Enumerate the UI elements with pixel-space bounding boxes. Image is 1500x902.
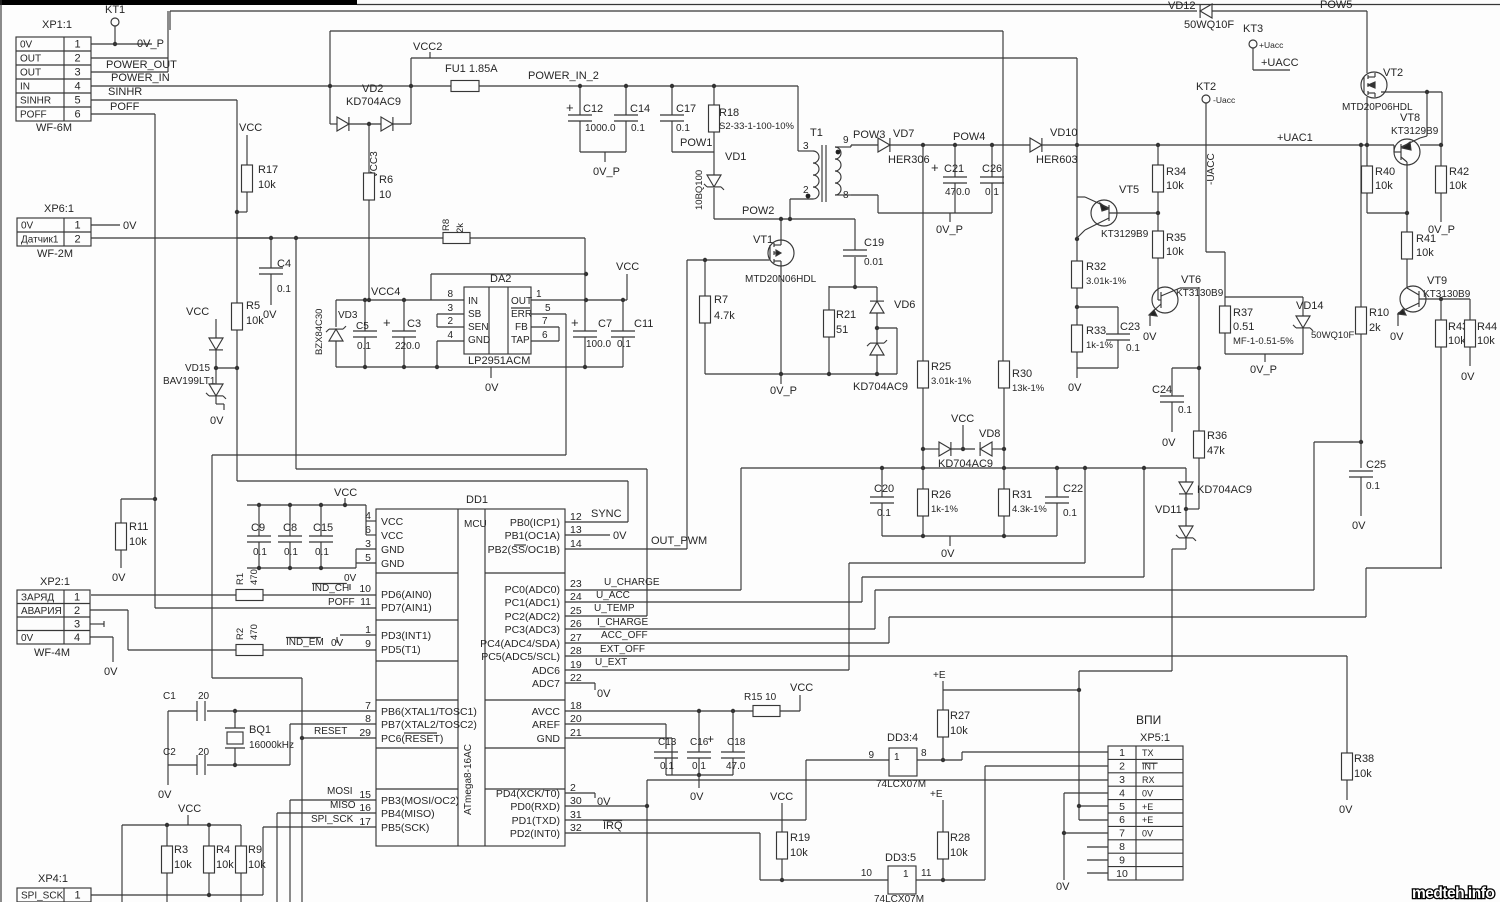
svg-text:GND: GND [537, 733, 561, 745]
diode pair VD8 KD704AC9 [921, 413, 1006, 470]
svg-text:3.01k-1%: 3.01k-1% [1086, 276, 1127, 287]
capacitor C12 [566, 84, 616, 152]
svg-text:ACC_OFF: ACC_OFF [601, 630, 648, 641]
transistor VT9 KT3130B9 [1390, 275, 1471, 343]
svg-text:0.1: 0.1 [253, 547, 267, 558]
svg-text:0V: 0V [21, 633, 34, 644]
svg-text:KT3129B9: KT3129B9 [1391, 126, 1439, 137]
svg-text:0V: 0V [104, 666, 118, 678]
svg-text:VT6: VT6 [1181, 274, 1201, 286]
wire 0V_P rail primary [705, 372, 897, 397]
svg-text:5: 5 [365, 552, 371, 564]
wire POWER_IN upper bus [328, 31, 1003, 361]
svg-text:PD1(TXD): PD1(TXD) [512, 815, 560, 827]
wire DA2 left pins [435, 314, 464, 369]
svg-text:8: 8 [447, 289, 453, 300]
svg-text:50WQ10F: 50WQ10F [1184, 19, 1234, 31]
wire VCC pins MCU [366, 505, 376, 535]
svg-text:PB3(MOSI/OC2): PB3(MOSI/OC2) [381, 795, 459, 807]
svg-text:R17: R17 [258, 164, 278, 176]
svg-text:VD11: VD11 [1155, 504, 1182, 516]
svg-text:0.1: 0.1 [315, 547, 329, 558]
svg-text:VCC2: VCC2 [413, 41, 442, 53]
svg-text:C22: C22 [1063, 483, 1083, 495]
diode VD7 HER306 [851, 128, 1030, 166]
svg-text:WF-6M: WF-6M [36, 122, 72, 134]
svg-text:4.3k-1%: 4.3k-1% [1012, 504, 1047, 515]
svg-text:8: 8 [365, 713, 371, 725]
svg-text:50WQ10F: 50WQ10F [1311, 330, 1354, 341]
svg-text:R1: R1 [235, 573, 246, 585]
svg-text:10: 10 [379, 189, 391, 201]
svg-text:47.0: 47.0 [726, 761, 746, 772]
svg-text:R5: R5 [246, 300, 260, 312]
svg-text:7: 7 [542, 316, 548, 327]
wire POW2 [714, 217, 855, 221]
wire XP2 pin4 [90, 637, 118, 678]
svg-text:R32: R32 [1086, 261, 1106, 273]
svg-text:medteh.info: medteh.info [1412, 885, 1494, 902]
svg-text:16000kHz: 16000kHz [249, 740, 294, 751]
svg-text:15: 15 [359, 789, 371, 801]
svg-text:10k: 10k [1448, 335, 1466, 347]
svg-text:16: 16 [359, 802, 371, 814]
capacitor C26 [980, 143, 1004, 213]
svg-text:DD3:5: DD3:5 [885, 852, 916, 864]
svg-text:3: 3 [365, 538, 371, 550]
wire battery sense rail [741, 466, 1186, 470]
wire RXD [565, 780, 1108, 902]
svg-text:2: 2 [447, 316, 453, 327]
svg-text:VCC: VCC [178, 803, 201, 815]
wire PD4 0V [565, 793, 611, 808]
wire 0V rail under dividers [882, 534, 1057, 560]
wire 0V_P under R37 [1225, 354, 1303, 376]
resistor R27 [933, 670, 970, 760]
svg-text:0V_P: 0V_P [1250, 364, 1277, 376]
wire XP5 +E pins [1077, 688, 1108, 820]
net label POW3 [853, 129, 885, 141]
svg-text:VD14: VD14 [1296, 300, 1324, 312]
svg-text:POW1: POW1 [680, 137, 712, 149]
svg-text:+: + [566, 100, 574, 115]
svg-text:C9: C9 [251, 522, 265, 534]
svg-text:R34: R34 [1166, 166, 1186, 178]
power VCC above C11 [616, 261, 639, 300]
svg-text:0.51: 0.51 [1233, 321, 1254, 333]
resistor R42 [1428, 145, 1469, 236]
svg-text:C17: C17 [676, 103, 696, 115]
svg-text:C14: C14 [630, 103, 650, 115]
svg-text:1: 1 [74, 890, 80, 902]
svg-text:0.1: 0.1 [1063, 508, 1077, 519]
mosfet VT1 MTD20N06HDL [745, 219, 817, 374]
wire XP2 pin3 stub [90, 621, 104, 627]
svg-text:0V: 0V [597, 688, 611, 700]
resistor R1 [91, 569, 376, 600]
svg-text:10k: 10k [246, 315, 264, 327]
svg-text:WF-4M: WF-4M [34, 647, 70, 659]
svg-text:0.01: 0.01 [864, 257, 884, 268]
svg-text:LP2951ACM: LP2951ACM [468, 355, 530, 367]
wire VT6 collector branch [1197, 287, 1201, 431]
capacitor C5 [353, 300, 377, 367]
capacitor C2 [163, 724, 376, 775]
wire XP5 spare stubs [1087, 847, 1108, 873]
svg-text:R9: R9 [248, 844, 262, 856]
svg-text:TAP: TAP [511, 335, 530, 346]
svg-text:0.1: 0.1 [1366, 481, 1380, 492]
svg-text:10: 10 [1116, 868, 1128, 880]
wire OUT_PWM [565, 260, 707, 549]
svg-text:AREF: AREF [532, 719, 560, 731]
svg-text:POFF: POFF [110, 101, 140, 113]
svg-text:VCC: VCC [616, 261, 639, 273]
svg-text:-Uacc: -Uacc [1213, 95, 1236, 105]
svg-text:+: + [931, 160, 939, 175]
svg-text:C20: C20 [874, 483, 894, 495]
svg-text:0.1: 0.1 [660, 761, 674, 772]
svg-text:+E: +E [1142, 815, 1153, 825]
watermark medteh.info [1412, 885, 1494, 902]
svg-text:R42: R42 [1449, 166, 1469, 178]
svg-text:0V: 0V [1142, 788, 1153, 798]
test point KT1 [105, 4, 125, 46]
diode VD1 10BQ100 [694, 151, 746, 219]
svg-text:АВАРИЯ: АВАРИЯ [21, 606, 62, 617]
connector XP6:1 [17, 203, 91, 260]
svg-text:R27: R27 [950, 710, 970, 722]
test point KT3 [1243, 23, 1299, 70]
wire XP6 pin2 sensor [91, 236, 298, 240]
svg-text:DD1: DD1 [466, 494, 488, 506]
net label POWER_OUT [106, 59, 177, 71]
svg-text:10k: 10k [1375, 180, 1393, 192]
svg-text:S2-33-1-100-10%: S2-33-1-100-10% [719, 121, 795, 132]
svg-text:R3: R3 [174, 844, 188, 856]
svg-text:0V: 0V [158, 789, 172, 801]
wire DD3:4 in [806, 759, 889, 761]
svg-text:10k: 10k [790, 847, 808, 859]
svg-text:IRQ: IRQ [603, 820, 623, 832]
wire SINHR [91, 100, 237, 238]
svg-text:6: 6 [74, 109, 80, 121]
svg-text:C18: C18 [727, 737, 746, 748]
svg-text:1: 1 [536, 289, 542, 300]
svg-text:0V_P: 0V_P [137, 38, 164, 50]
svg-text:POFF: POFF [328, 597, 355, 608]
svg-text:1: 1 [903, 869, 909, 880]
wire VCC2 bus [409, 58, 1079, 261]
resistor R34 [1153, 143, 1187, 215]
net label VCC2 [413, 41, 442, 58]
resistor R30 [999, 361, 1045, 468]
svg-text:VD7: VD7 [893, 128, 914, 140]
svg-text:ADC7: ADC7 [532, 678, 560, 690]
crystal BQ1 16000kHz [225, 711, 294, 767]
svg-text:PB5(SCK): PB5(SCK) [381, 822, 429, 834]
svg-text:R15 10: R15 10 [744, 692, 777, 703]
wire crystal ground [158, 711, 172, 801]
svg-text:10k: 10k [1477, 335, 1495, 347]
svg-text:+E: +E [930, 789, 943, 800]
svg-text:C21: C21 [944, 163, 964, 175]
svg-text:XP1:1: XP1:1 [42, 19, 72, 31]
svg-text:PC4(ADC4/SDA): PC4(ADC4/SDA) [480, 638, 560, 650]
wire MCU GND pin21 [565, 738, 672, 775]
svg-text:OUT_PWM: OUT_PWM [651, 535, 707, 547]
capacitor C19 [843, 219, 884, 289]
svg-text:0V: 0V [1352, 520, 1366, 532]
svg-text:100.0: 100.0 [586, 339, 611, 350]
svg-text:SINHR: SINHR [20, 96, 51, 107]
svg-text:BAV199LT1: BAV199LT1 [163, 376, 216, 387]
svg-text:VD15: VD15 [185, 363, 210, 374]
svg-text:SYNC: SYNC [591, 508, 622, 520]
svg-text:C8: C8 [283, 522, 297, 534]
svg-text:0.1: 0.1 [277, 284, 291, 295]
svg-text:PD3(INT1): PD3(INT1) [381, 630, 431, 642]
svg-text:U_EXT: U_EXT [595, 657, 627, 668]
svg-text:HER603: HER603 [1036, 154, 1078, 166]
svg-text:10k: 10k [248, 859, 266, 871]
svg-text:VCC: VCC [239, 122, 262, 134]
svg-text:10k: 10k [950, 847, 968, 859]
svg-text:+Uacc: +Uacc [1259, 40, 1284, 50]
svg-text:R10: R10 [1369, 307, 1389, 319]
transformer T1 [790, 86, 878, 219]
svg-text:47k: 47k [1207, 445, 1225, 457]
svg-text:18: 18 [570, 700, 582, 712]
resistor R28 [930, 789, 970, 880]
svg-text:MF-1-0.51-5%: MF-1-0.51-5% [1233, 336, 1294, 347]
svg-text:C1: C1 [163, 691, 176, 702]
resistor R35 [1153, 213, 1187, 300]
capacitor C4 [259, 238, 291, 321]
wire GND pins MCU [356, 549, 376, 568]
svg-text:R2: R2 [235, 628, 246, 640]
svg-text:VCC: VCC [381, 530, 404, 542]
svg-text:2: 2 [570, 782, 576, 794]
diode pair VD2 KD704AC9 [330, 83, 411, 131]
net label POWER_IN [111, 72, 170, 84]
resistor R4 [204, 825, 235, 895]
svg-text:9: 9 [365, 638, 371, 650]
svg-text:0V: 0V [1162, 437, 1176, 449]
svg-text:OUT: OUT [20, 68, 41, 79]
diode pair VD15 BAV199LT1 [163, 306, 237, 427]
ic DD3:5 74LCX07M [861, 852, 932, 902]
ic DA2 LP2951ACM [447, 273, 551, 367]
resistor R21 [824, 286, 857, 374]
svg-text:4: 4 [1119, 787, 1125, 799]
svg-text:VD2: VD2 [362, 83, 383, 95]
svg-text:POWER_OUT: POWER_OUT [106, 59, 177, 71]
wire U_TEMP [565, 603, 647, 616]
wire MOSI [290, 786, 376, 902]
svg-text:VT2: VT2 [1383, 67, 1403, 79]
svg-text:10k: 10k [174, 859, 192, 871]
svg-text:1000.0: 1000.0 [585, 123, 616, 134]
svg-text:IND_EM: IND_EM [286, 637, 324, 648]
capacitor C22 [1045, 468, 1083, 536]
svg-text:MCU: MCU [464, 519, 487, 530]
svg-text:PD4(XCK/T0): PD4(XCK/T0) [496, 788, 560, 800]
svg-text:R28: R28 [950, 832, 970, 844]
svg-text:GND: GND [381, 544, 405, 556]
svg-text:0.1: 0.1 [357, 341, 371, 352]
svg-text:10k: 10k [216, 859, 234, 871]
net label VCC3 [369, 124, 380, 178]
net label +UAC1 [1277, 132, 1313, 144]
svg-text:R26: R26 [931, 489, 951, 501]
wire MISO [277, 800, 376, 902]
svg-text:12: 12 [570, 511, 582, 523]
svg-text:PB6(XTAL1/TOSC1): PB6(XTAL1/TOSC1) [381, 706, 477, 718]
transistor VT8 KT3129B9 [1391, 92, 1441, 232]
resistor R44 [1461, 299, 1497, 383]
svg-text:19: 19 [570, 659, 582, 671]
resistor R5 [232, 238, 265, 370]
svg-text:0V: 0V [1339, 804, 1353, 816]
svg-text:2k: 2k [1369, 322, 1381, 334]
svg-text:9: 9 [1119, 854, 1125, 866]
capacitor C11 [611, 298, 653, 367]
ic DD1 ATmega8-16AC [359, 494, 582, 846]
svg-text:PC1(ADC1): PC1(ADC1) [505, 597, 560, 609]
svg-text:26: 26 [570, 618, 582, 630]
svg-text:0.1: 0.1 [676, 123, 690, 134]
svg-text:0V: 0V [1461, 371, 1475, 383]
resistor R43 [1436, 299, 1469, 568]
capacitor C13 [654, 737, 678, 775]
svg-text:0V_P: 0V_P [593, 166, 620, 178]
svg-text:3.01k-1%: 3.01k-1% [931, 376, 972, 387]
resistor R10 [1356, 143, 1390, 444]
svg-text:10k: 10k [258, 179, 276, 191]
svg-text:XP4:1: XP4:1 [38, 873, 68, 885]
capacitor C21 [931, 143, 970, 213]
resistor R36 [1194, 430, 1228, 509]
resistor R8 [237, 219, 585, 274]
svg-text:10k: 10k [1449, 180, 1467, 192]
svg-text:29: 29 [359, 727, 371, 739]
svg-text:0V: 0V [263, 309, 277, 321]
svg-text:C23: C23 [1120, 321, 1140, 333]
svg-text:KT2: KT2 [1196, 81, 1216, 93]
resistor R19 [770, 791, 810, 880]
svg-text:U_ACC: U_ACC [596, 590, 630, 601]
wire sensor vertical [236, 368, 238, 481]
svg-text:2k: 2k [455, 223, 466, 233]
svg-text:C24: C24 [1152, 384, 1172, 396]
svg-text:20: 20 [570, 713, 582, 725]
svg-text:1: 1 [365, 624, 371, 636]
capacitor C15 [309, 503, 333, 568]
svg-text:2: 2 [74, 234, 80, 246]
svg-text:KD704AC9: KD704AC9 [1197, 484, 1252, 496]
svg-text:5: 5 [1119, 801, 1125, 813]
wire DA2 top bypass [431, 274, 585, 300]
svg-text:ВПИ: ВПИ [1136, 713, 1161, 727]
svg-text:VCC: VCC [381, 516, 404, 528]
svg-text:KT3130B9: KT3130B9 [1176, 288, 1224, 299]
connector XP1:1 [16, 19, 91, 134]
wire 0V rail MCU [247, 566, 356, 570]
svg-text:OUT: OUT [511, 296, 532, 307]
svg-text:5: 5 [74, 95, 80, 107]
svg-text:25: 25 [570, 605, 582, 617]
svg-text:C16: C16 [690, 737, 709, 748]
svg-text:3: 3 [74, 618, 80, 630]
svg-text:4: 4 [74, 81, 80, 93]
svg-text:PC5(ADC5/SCL): PC5(ADC5/SCL) [481, 651, 560, 663]
svg-text:4.7k: 4.7k [714, 310, 735, 322]
svg-text:C7: C7 [598, 318, 612, 330]
svg-text:10: 10 [861, 868, 873, 879]
svg-text:PD6(AIN0): PD6(AIN0) [381, 589, 432, 601]
svg-text:EXT_OFF: EXT_OFF [600, 644, 645, 655]
svg-text:+UACC: +UACC [1261, 57, 1299, 69]
wire EXT_OFF [565, 644, 1347, 753]
svg-text:+E: +E [933, 670, 946, 681]
capacitor C20 [870, 468, 894, 536]
svg-text:Датчик1: Датчик1 [21, 235, 59, 246]
svg-text:OUT: OUT [20, 54, 41, 65]
diode VD12 [1168, 0, 1367, 31]
capacitor C25 [1349, 442, 1386, 532]
svg-text:0V: 0V [210, 415, 224, 427]
svg-text:27: 27 [570, 632, 582, 644]
resistor R6 [364, 173, 394, 300]
svg-text:74LCX07M: 74LCX07M [874, 894, 924, 902]
svg-text:POW4: POW4 [953, 131, 985, 143]
svg-text:VD1: VD1 [725, 151, 746, 163]
svg-text:POWER_IN_2: POWER_IN_2 [528, 70, 599, 82]
svg-text:23: 23 [570, 578, 582, 590]
svg-text:30: 30 [570, 795, 582, 807]
svg-text:R11: R11 [129, 521, 148, 533]
diode pair VD11 [1155, 468, 1252, 671]
resistor R17 [235, 122, 278, 214]
capacitor C24 [1152, 368, 1199, 449]
resistor R26 [918, 468, 959, 536]
svg-text:C19: C19 [864, 237, 884, 249]
svg-text:3: 3 [74, 67, 80, 79]
svg-text:31: 31 [570, 809, 582, 821]
wire 0V_P under C12 [580, 152, 626, 178]
svg-text:4: 4 [447, 330, 453, 341]
svg-text:11: 11 [360, 596, 371, 608]
capacitor C14 [614, 84, 650, 152]
svg-text:VT1: VT1 [753, 234, 773, 246]
resistor R7 [687, 258, 769, 374]
connector XP2:1 [17, 576, 90, 659]
svg-text:0.1: 0.1 [284, 547, 298, 558]
wire XP2 pin2 [90, 610, 128, 650]
svg-text:PC2(ADC2): PC2(ADC2) [505, 611, 560, 623]
svg-text:0V: 0V [344, 573, 357, 584]
svg-text:0V_P: 0V_P [936, 224, 963, 236]
wire RESET [300, 678, 376, 902]
svg-text:0V: 0V [123, 220, 137, 232]
wire 0V pin13 [565, 530, 627, 542]
wire 0V rail DA2 [336, 365, 623, 394]
svg-text:5: 5 [545, 303, 551, 314]
svg-text:4: 4 [74, 632, 80, 644]
svg-text:7: 7 [365, 700, 371, 712]
wire POWER_IN [91, 85, 798, 87]
